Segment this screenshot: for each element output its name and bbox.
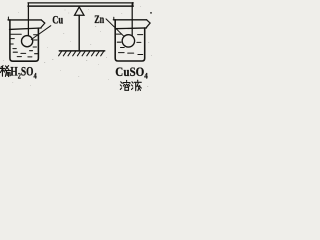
left liquid dashes <box>10 39 37 57</box>
copper ball <box>22 36 33 47</box>
fulcrum triangle <box>75 7 85 15</box>
support post <box>78 16 80 51</box>
left beaker back rim <box>8 19 41 21</box>
left beaker body <box>10 20 39 61</box>
left beaker spout <box>41 20 45 28</box>
Zn leader line <box>106 19 124 36</box>
right beaker front rim <box>115 27 147 30</box>
svg-text:H2SO4: H2SO4 <box>10 65 36 81</box>
background <box>0 0 155 96</box>
label 稀 (drawn strokes) <box>0 66 10 77</box>
right liquid dashes <box>117 42 142 54</box>
label 溶 (drawn strokes) <box>120 80 130 90</box>
right beaker rim left tick <box>113 17 115 20</box>
left beaker rim left tick <box>7 17 9 20</box>
beam right end cap <box>132 3 134 7</box>
left hanging wire <box>27 3 29 36</box>
right beaker spout <box>147 20 151 28</box>
right liquid surface <box>116 33 142 36</box>
ground line <box>59 50 104 52</box>
Cu leader line <box>31 26 51 40</box>
label 液 (drawn strokes) <box>132 80 142 91</box>
svg-text:Zn: Zn <box>94 14 104 26</box>
scan noise speckles <box>3 6 152 87</box>
ground hatching <box>59 52 104 56</box>
beam (lever) bottom line <box>28 5 133 7</box>
left liquid surface <box>11 33 38 36</box>
svg-text:CuSO4: CuSO4 <box>115 64 148 81</box>
right beaker back rim <box>113 19 146 21</box>
zinc ball <box>122 35 134 47</box>
right hanging wire <box>131 3 133 35</box>
svg-text:Cu: Cu <box>52 15 63 27</box>
right beaker body <box>115 20 145 61</box>
beam (lever) top line <box>28 2 133 4</box>
left beaker front rim <box>10 28 42 29</box>
